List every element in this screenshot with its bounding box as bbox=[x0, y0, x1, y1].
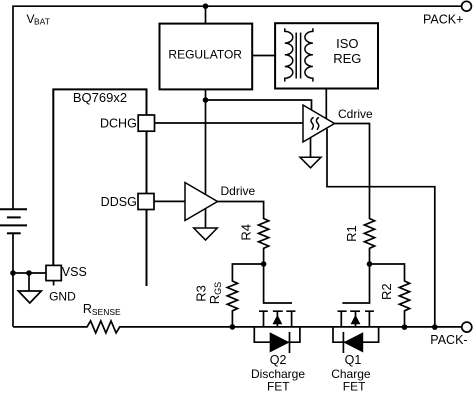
svg-text:FET: FET bbox=[267, 380, 290, 394]
svg-text:Ddrive: Ddrive bbox=[221, 184, 256, 198]
svg-text:Q2: Q2 bbox=[270, 353, 287, 367]
svg-text:VSS: VSS bbox=[62, 265, 87, 279]
svg-text:Cdrive: Cdrive bbox=[338, 107, 373, 121]
svg-text:PACK+: PACK+ bbox=[423, 13, 463, 27]
svg-text:ISO: ISO bbox=[336, 36, 358, 51]
svg-text:GND: GND bbox=[49, 290, 76, 304]
svg-text:Q1: Q1 bbox=[345, 353, 362, 367]
svg-text:BQ769x2: BQ769x2 bbox=[73, 90, 127, 105]
svg-text:R4: R4 bbox=[238, 224, 253, 241]
svg-text:REG: REG bbox=[333, 51, 361, 66]
svg-text:DCHG: DCHG bbox=[100, 116, 137, 130]
svg-text:SENSE: SENSE bbox=[92, 307, 121, 317]
svg-text:R: R bbox=[83, 302, 92, 316]
svg-text:DDSG: DDSG bbox=[101, 195, 137, 209]
svg-text:BAT: BAT bbox=[34, 16, 50, 26]
svg-text:R2: R2 bbox=[379, 283, 394, 300]
svg-text:REGULATOR: REGULATOR bbox=[168, 47, 242, 61]
svg-text:PACK-: PACK- bbox=[430, 333, 467, 347]
svg-text:R1: R1 bbox=[344, 225, 359, 242]
svg-text:FET: FET bbox=[343, 380, 366, 394]
svg-text:RGS: RGS bbox=[207, 282, 223, 304]
